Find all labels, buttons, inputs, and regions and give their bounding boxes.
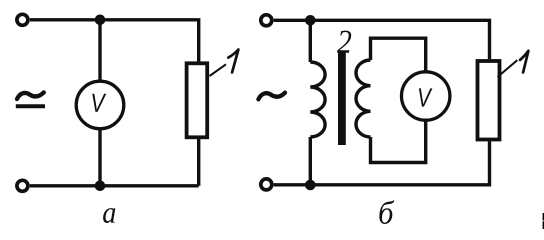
wire bottom (right circuit) [274,141,490,185]
terminal bottom-left [17,180,28,191]
wire resistor bottom lead (left circuit) [197,139,200,186]
voltmeter U1 label V [92,94,106,112]
AC source symbol tilde (right) [258,93,285,100]
wire secondary loop bottom [371,120,426,163]
wire top (right circuit) [274,20,490,59]
scan artifact black strip bottom-right [543,213,544,229]
terminal top-left (right circuit) [261,15,272,26]
transformer primary winding [310,62,325,137]
label 2 (core) [337,31,351,53]
leader line to label 1 (left) [210,64,227,76]
voltmeter U1 circle [76,81,124,129]
label a (caption) [103,208,115,223]
voltmeter U2 circle [402,72,450,120]
transformer core 2 [338,52,346,145]
wire transformer primary bottom lead [309,137,312,185]
AC source symbol (tilde with bar) [17,92,44,99]
wire transformer primary top lead [309,20,312,62]
transformer secondary winding [356,60,371,137]
wire top (left circuit) [30,20,199,62]
terminal top-left [17,14,28,25]
junction top (left circuit) [95,14,106,25]
label 1 (left resistor) [228,50,238,73]
wire voltmeter bottom lead [98,128,101,186]
junction top (right circuit) [305,15,316,26]
resistor 1 (left circuit) [187,63,208,137]
junction bottom (left circuit) [95,181,106,192]
label b (caption) [379,200,394,224]
wire voltmeter top lead [98,20,101,82]
resistor 1 (right circuit) [478,61,500,140]
leader line to label 1 (right) [498,60,518,77]
label 1 (right resistor) [520,51,528,73]
voltmeter U2 label V [419,88,433,106]
wire bottom (left circuit) [30,184,199,187]
terminal bottom-left (right circuit) [261,179,272,190]
scan artifact orange speck [543,220,544,222]
junction bottom (right circuit) [305,180,316,191]
wire secondary loop top [371,38,426,72]
